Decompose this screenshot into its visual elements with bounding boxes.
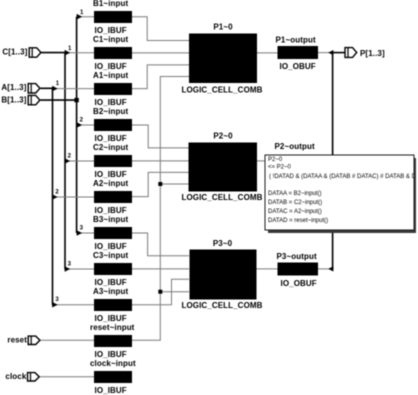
- wire: reset branch to P2 DATAD: [160, 183, 189, 185]
- wire: P3 output to IO_OBUF: [257, 268, 278, 270]
- junction: reset branch at P2: [158, 182, 162, 186]
- wire: A bus horizontal from port A[1..3]: [41, 87, 54, 89]
- svg-text:C3~input: C3~input: [93, 251, 128, 260]
- tap arrow C3 bit 3: [65, 266, 71, 272]
- svg-text:P3~0: P3~0: [213, 239, 233, 248]
- wire: P1 output to IO_OBUF: [257, 52, 278, 54]
- svg-text:IO_IBUF: IO_IBUF: [95, 170, 127, 179]
- svg-text:B1~input: B1~input: [93, 0, 128, 8]
- wire: C3 bit tap to IBUF: [65, 268, 94, 270]
- input port C[1..3]: [2, 48, 41, 58]
- svg-text:A1~input: A1~input: [93, 71, 128, 80]
- svg-text:LOGIC_CELL_COMB: LOGIC_CELL_COMB: [181, 301, 262, 310]
- junction: reset branch at P3: [158, 290, 162, 294]
- svg-text:A[1..3]: A[1..3]: [1, 83, 26, 92]
- IO buffer clock~input: [90, 359, 136, 395]
- svg-text:( !DATAD & (DATAA & (DATAB # D: ( !DATAD & (DATAA & (DATAB # DATAC) # DA…: [269, 174, 418, 180]
- svg-text:clock: clock: [5, 372, 26, 381]
- svg-text:DATAB = C2~input(): DATAB = C2~input(): [268, 200, 322, 206]
- svg-text:IO_IBUF: IO_IBUF: [95, 386, 127, 395]
- wire: C1 bit tap to IBUF: [65, 52, 94, 54]
- tap label 2 (A2): [55, 190, 59, 196]
- tap label 3 (A3): [55, 297, 59, 303]
- svg-text:DATAA = B2~input(): DATAA = B2~input(): [268, 191, 321, 197]
- svg-text:3: 3: [68, 262, 72, 268]
- tap arrow A2 bit 2: [52, 194, 58, 200]
- wire: C bus horizontal from port C[1..3]: [41, 52, 66, 54]
- IO buffer C1~input: [93, 35, 132, 71]
- svg-text:IO_IBUF: IO_IBUF: [95, 350, 127, 359]
- svg-text:P3~output: P3~output: [277, 252, 317, 261]
- wire: B bus vertical (net B[1..3]): [76, 17, 78, 233]
- svg-text:P1~output: P1~output: [276, 36, 316, 45]
- input port B[1..3]: [1, 95, 40, 104]
- svg-text:DATAC = A2~input(): DATAC = A2~input(): [268, 209, 322, 215]
- wire: C3~input IBUF output to P3 DATAB: [132, 268, 189, 270]
- wire: A3 bit tap to IBUF: [53, 304, 95, 306]
- output buffer label P2~output (buffer hidden by tooltip): [275, 142, 315, 151]
- wire: B3 bit tap to IBUF: [77, 232, 94, 234]
- svg-text:3: 3: [55, 297, 59, 303]
- wire: P3~output OBUF to bus merge: [318, 268, 333, 270]
- svg-text:1: 1: [56, 81, 60, 87]
- tap label 1 (B1): [80, 10, 84, 16]
- IO buffer reset~input: [90, 323, 135, 359]
- wire: C2~input IBUF output to P2 DATAB: [132, 160, 189, 162]
- IO buffer B2~input: [93, 107, 132, 143]
- svg-text:reset~input: reset~input: [90, 323, 135, 332]
- tap label 1 (A1): [56, 81, 60, 87]
- svg-text:A2~input: A2~input: [93, 179, 128, 188]
- svg-text:P2~0: P2~0: [213, 132, 233, 141]
- wire: A bus vertical (net A[1..3]): [52, 88, 54, 304]
- svg-text:1: 1: [68, 46, 72, 52]
- svg-text:C[1..3]: C[1..3]: [2, 48, 27, 57]
- IO buffer B3~input: [93, 215, 132, 251]
- tap arrow C2 bit 2: [65, 158, 71, 164]
- wire: reset branch to P3 DATAD: [160, 291, 189, 293]
- svg-text:IO_OBUF: IO_OBUF: [280, 62, 316, 71]
- wire: P1~output OBUF to bus merge: [318, 52, 333, 54]
- svg-text:DATAD = reset~input(): DATAD = reset~input(): [268, 218, 328, 224]
- IO buffer B1~input: [93, 0, 132, 35]
- wire: P bus vertical (net P[1..3]): [332, 52, 334, 269]
- svg-text:2: 2: [68, 154, 72, 160]
- tap label 3 (B3): [80, 226, 84, 232]
- input port clock: [5, 372, 39, 381]
- svg-text:IO_IBUF: IO_IBUF: [95, 98, 127, 107]
- wire: B2~input IBUF output to P2 DATAA: [132, 125, 189, 148]
- wire: A1 bit tap to IBUF: [53, 88, 95, 90]
- tap label 3 (C3): [68, 262, 72, 268]
- tap arrow B2 bit 2: [77, 122, 83, 128]
- wire: A3~input IBUF output to P3 DATAC: [132, 279, 189, 304]
- logic cell P1~0: [181, 23, 262, 95]
- tap arrow C1 bit 1: [65, 50, 71, 56]
- svg-text:P[1..3]: P[1..3]: [360, 49, 385, 58]
- wire: B1 bit tap to IBUF: [77, 16, 94, 18]
- svg-text:IO_IBUF: IO_IBUF: [95, 206, 127, 215]
- svg-text:LOGIC_CELL_COMB: LOGIC_CELL_COMB: [181, 86, 262, 95]
- svg-text:B3~input: B3~input: [93, 215, 128, 224]
- svg-text:P2~output: P2~output: [275, 142, 315, 151]
- equation tooltip popup for P2~output: [265, 155, 418, 233]
- wire: A2 bit tap to IBUF: [53, 196, 95, 198]
- wire: reset net vertical trunk to P1 DATAD: [132, 77, 189, 341]
- svg-text:<= P2~0: <= P2~0: [268, 164, 292, 170]
- svg-text:LOGIC_CELL_COMB: LOGIC_CELL_COMB: [181, 193, 262, 202]
- tap arrow B3 bit 3: [77, 230, 83, 236]
- wire: A1~input IBUF output to P1 DATAC: [132, 65, 189, 89]
- wire: B bus horizontal from port B[1..3]: [41, 99, 78, 101]
- IO buffer A3~input: [93, 287, 132, 323]
- svg-text:IO_IBUF: IO_IBUF: [95, 314, 127, 323]
- input port reset: [7, 336, 40, 345]
- wire: C1~input IBUF output to P1 DATAB: [132, 52, 189, 54]
- svg-text:reset: reset: [7, 336, 27, 345]
- wire: clock port to IBUF: [39, 376, 94, 378]
- svg-text:C1~input: C1~input: [93, 35, 128, 44]
- merge arrow P1 bit into bus: [328, 50, 333, 55]
- svg-text:2: 2: [80, 118, 84, 124]
- wire: B1~input IBUF output to P1 DATAA: [132, 17, 189, 41]
- IO buffer C2~input: [93, 143, 132, 179]
- svg-text:IO_OBUF: IO_OBUF: [281, 279, 317, 288]
- wire: C2 bit tap to IBUF: [65, 160, 94, 162]
- wire: B2 bit tap to IBUF: [77, 124, 94, 126]
- wire: P bus horizontal to output port: [332, 52, 345, 54]
- svg-text:P2~0: P2~0: [268, 157, 283, 163]
- svg-text:3: 3: [80, 226, 84, 232]
- svg-text:IO_IBUF: IO_IBUF: [95, 134, 127, 143]
- wire: A2~input IBUF output to P2 DATAC: [132, 172, 189, 196]
- wire: B3~input IBUF output to P3 DATAA: [132, 233, 189, 256]
- output buffer P3~output IO_OBUF: [277, 252, 319, 288]
- logic cell P2~0: [181, 132, 262, 203]
- output buffer P1~output IO_OBUF: [276, 36, 319, 72]
- logic cell P3~0: [181, 239, 262, 310]
- svg-text:C2~input: C2~input: [93, 143, 128, 152]
- wire: reset port to IBUF: [39, 339, 94, 341]
- tap arrow B1 bit 1: [77, 14, 83, 20]
- junction on B bus at port entry: [74, 98, 78, 102]
- svg-text:B2~input: B2~input: [93, 107, 128, 116]
- svg-text:IO_IBUF: IO_IBUF: [95, 62, 127, 71]
- tap arrow A1 bit 1: [52, 86, 58, 92]
- merge arrow P3 bit into bus: [328, 266, 333, 271]
- IO buffer A2~input: [93, 179, 132, 215]
- input port A[1..3]: [1, 83, 40, 93]
- IO buffer A1~input: [93, 71, 132, 107]
- wire: P2 output stub toward hidden IO_OBUF: [257, 160, 267, 162]
- svg-text:A3~input: A3~input: [93, 287, 128, 296]
- svg-text:1: 1: [80, 10, 84, 16]
- wire: C bus vertical (net C[1..3]): [64, 52, 66, 269]
- output port P[1..3]: [345, 48, 385, 58]
- svg-text:clock~input: clock~input: [90, 359, 136, 368]
- tap label 2 (C2): [68, 154, 72, 160]
- svg-text:P1~0: P1~0: [213, 23, 233, 32]
- tap label 1 (C1): [68, 46, 72, 52]
- IO buffer C3~input: [93, 251, 132, 287]
- svg-text:IO_IBUF: IO_IBUF: [95, 278, 127, 287]
- tap label 2 (B2): [80, 118, 84, 124]
- svg-text:IO_IBUF: IO_IBUF: [95, 26, 127, 35]
- svg-text:2: 2: [55, 190, 59, 196]
- svg-text:IO_IBUF: IO_IBUF: [95, 242, 127, 251]
- svg-text:B[1..3]: B[1..3]: [1, 96, 26, 105]
- tap arrow A3 bit 3: [52, 302, 58, 308]
